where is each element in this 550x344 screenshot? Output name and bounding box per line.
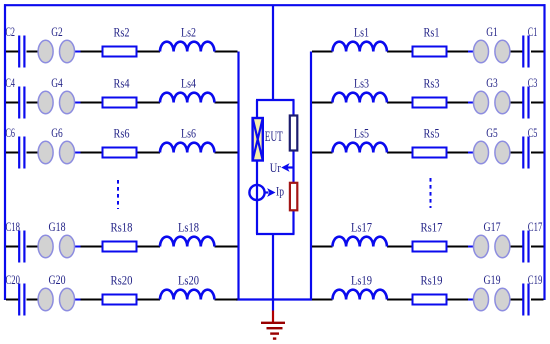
svg-text:G18: G18 xyxy=(49,219,66,234)
inductor Ls20 xyxy=(160,290,214,300)
gas discharge tube G1 xyxy=(474,40,510,62)
svg-text:Ls19: Ls19 xyxy=(351,273,372,288)
svg-text:Ls17: Ls17 xyxy=(351,220,372,235)
svg-text:Rs20: Rs20 xyxy=(111,273,133,288)
svg-text:Ls5: Ls5 xyxy=(354,126,369,141)
svg-text:Rs6: Rs6 xyxy=(114,126,130,141)
svg-text:Ls18: Ls18 xyxy=(178,220,199,235)
wire row Ls5/Rs5/G5/C5 black segments xyxy=(312,152,544,154)
bottom bus wire xyxy=(236,298,312,300)
capacitor C19 xyxy=(523,284,528,316)
node: EUT box top connector xyxy=(256,99,295,101)
svg-text:Rs2: Rs2 xyxy=(114,25,130,40)
svg-text:C6: C6 xyxy=(6,125,16,140)
resistor Rs6 xyxy=(103,148,137,158)
wire blue stubs row 5 xyxy=(468,152,474,154)
wire blue stubs row 2 xyxy=(74,51,80,53)
resistor Rs4 xyxy=(103,98,137,108)
top border wire xyxy=(4,4,546,6)
wire row Ls17/Rs17/G17/C17 black segments xyxy=(312,246,544,248)
svg-text:Ls1: Ls1 xyxy=(354,25,369,40)
capacitor C6 xyxy=(19,137,24,169)
svg-text:Ls6: Ls6 xyxy=(181,126,196,141)
wire row Ls1/Rs1/G1/C1 black segments xyxy=(312,51,544,53)
wire drop from EUT box to ground xyxy=(272,234,274,311)
svg-text:G2: G2 xyxy=(51,24,63,39)
resistor Rs1 xyxy=(413,47,447,57)
inductor Ls1 xyxy=(333,42,387,52)
capacitor C4 xyxy=(19,87,24,119)
resistor Rs20 xyxy=(103,295,137,305)
inductor Ls3 xyxy=(333,93,387,103)
gas discharge tube G3 xyxy=(474,91,510,113)
svg-text:C18: C18 xyxy=(6,219,21,234)
current source Ip (circle) xyxy=(249,185,264,200)
inductor Ls2 xyxy=(160,42,214,52)
svg-text:G17: G17 xyxy=(484,219,501,234)
svg-text:Rs1: Rs1 xyxy=(424,25,440,40)
gas discharge tube G6 xyxy=(38,141,74,163)
impedance U1 (navy rectangle, right branch) xyxy=(290,116,298,151)
gas discharge tube G4 xyxy=(38,91,74,113)
svg-text:G19: G19 xyxy=(484,272,501,287)
inductor Ls5 xyxy=(333,143,387,153)
left bus wire xyxy=(237,52,239,300)
resistor Rs17 xyxy=(413,242,447,252)
wire row Ls19/Rs19/G19/C19 black segments xyxy=(312,299,544,301)
svg-text:C17: C17 xyxy=(528,219,543,234)
gas discharge tube G5 xyxy=(474,141,510,163)
ground symbol xyxy=(261,323,285,339)
svg-text:C5: C5 xyxy=(528,125,538,140)
svg-text:Rs5: Rs5 xyxy=(424,126,440,141)
wire blue stubs row 20 xyxy=(74,299,80,301)
svg-text:G6: G6 xyxy=(51,125,63,140)
wire blue stubs row 1 xyxy=(468,51,474,53)
wire red segment to ground xyxy=(272,311,274,323)
capacitor C2 xyxy=(19,36,24,68)
wire right branch of EUT box xyxy=(292,100,294,234)
wire row C4/G4/Rs4/Ls4 black segments xyxy=(6,102,238,104)
svg-text:C19: C19 xyxy=(528,272,543,287)
svg-text:C2: C2 xyxy=(6,24,16,39)
resistor Rs2 xyxy=(103,47,137,57)
wire row Ls3/Rs3/G3/C3 black segments xyxy=(312,102,544,104)
wire row C20/G20/Rs20/Ls20 black segments xyxy=(6,299,238,301)
capacitor C18 xyxy=(19,231,24,263)
resistor Rs3 xyxy=(413,98,447,108)
wire row C6/G6/Rs6/Ls6 black segments xyxy=(6,152,238,154)
right bus wire xyxy=(310,52,312,300)
wire blue stubs row 4 xyxy=(74,102,80,104)
arrow Ip (pointing right) xyxy=(265,188,276,197)
wire left branch of EUT box xyxy=(256,100,258,234)
svg-text:C1: C1 xyxy=(528,24,538,39)
dotted continuation line right xyxy=(430,178,432,208)
resistor (red rectangle, right branch) xyxy=(290,183,297,211)
wire blue stubs row 3 xyxy=(468,102,474,104)
gas discharge tube G18 xyxy=(38,235,74,257)
resistor Rs18 xyxy=(103,242,137,252)
wire through current source xyxy=(256,185,258,200)
inductor Ls19 xyxy=(333,290,387,300)
inductor Ls17 xyxy=(333,237,387,247)
resistor Rs19 xyxy=(413,295,447,305)
gas discharge tube G19 xyxy=(474,288,510,310)
wire blue stubs row 6 xyxy=(74,152,80,154)
feed wire from top border to EUT box xyxy=(272,5,274,100)
svg-text:EUT: EUT xyxy=(265,129,283,145)
svg-text:C20: C20 xyxy=(6,272,21,287)
capacitor C17 xyxy=(523,231,528,263)
wire blue stubs row 17 xyxy=(468,246,474,248)
fuse/spark-gap symbol of EUT (box with X) xyxy=(253,118,263,161)
svg-text:Ls20: Ls20 xyxy=(178,273,199,288)
svg-text:Rs17: Rs17 xyxy=(421,220,443,235)
wire row C2/G2/Rs2/Ls2 black segments xyxy=(6,51,238,53)
capacitor C1 xyxy=(523,36,528,68)
svg-text:Ip: Ip xyxy=(276,184,284,199)
inductor Ls18 xyxy=(160,237,214,247)
resistor Rs5 xyxy=(413,148,447,158)
svg-text:C4: C4 xyxy=(6,75,16,90)
arrow Ur (pointing left) xyxy=(281,163,294,172)
svg-text:G20: G20 xyxy=(49,272,66,287)
gas discharge tube G17 xyxy=(474,235,510,257)
gas discharge tube G20 xyxy=(38,288,74,310)
svg-text:Rs18: Rs18 xyxy=(111,220,133,235)
wire blue stubs row 19 xyxy=(468,299,474,301)
capacitor C20 xyxy=(19,284,24,316)
svg-text:Ls3: Ls3 xyxy=(354,76,369,91)
dotted continuation line left xyxy=(117,180,119,209)
capacitor C5 xyxy=(523,137,528,169)
svg-text:Rs4: Rs4 xyxy=(114,76,130,91)
svg-text:Rs19: Rs19 xyxy=(421,273,443,288)
svg-text:Ur: Ur xyxy=(270,160,282,175)
inductor Ls6 xyxy=(160,143,214,153)
inductor Ls4 xyxy=(160,93,214,103)
wire EUT box bottom connector xyxy=(256,233,295,235)
capacitor C3 xyxy=(523,87,528,119)
svg-text:Ls4: Ls4 xyxy=(181,76,196,91)
svg-text:G3: G3 xyxy=(486,75,498,90)
svg-text:C3: C3 xyxy=(528,75,538,90)
right border wire xyxy=(543,4,545,300)
wire blue stubs row 18 xyxy=(74,246,80,248)
svg-text:Ls2: Ls2 xyxy=(181,25,196,40)
svg-text:Rs3: Rs3 xyxy=(424,76,440,91)
svg-text:G1: G1 xyxy=(486,24,498,39)
svg-text:G4: G4 xyxy=(51,75,63,90)
left border wire xyxy=(4,4,6,300)
wire row C18/G18/Rs18/Ls18 black segments xyxy=(6,246,238,248)
gas discharge tube G2 xyxy=(38,40,74,62)
svg-text:G5: G5 xyxy=(486,125,498,140)
